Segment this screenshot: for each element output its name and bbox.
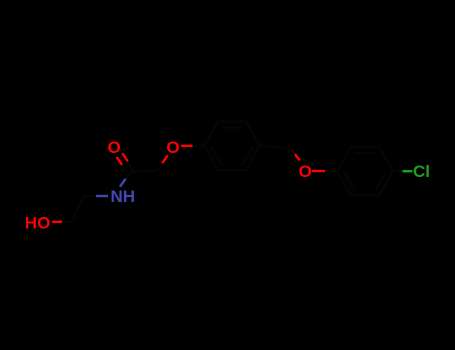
bond C2-N dark half <box>84 195 96 197</box>
bond O(H)-C1 dark half <box>62 221 72 223</box>
bond ring2-Cl green half <box>403 170 413 172</box>
bond C3=O main dark half <box>128 161 132 171</box>
svg-text:O: O <box>299 162 312 181</box>
bond ring2-Cl dark half <box>393 170 403 172</box>
bond N-C3 blue half <box>120 179 126 187</box>
bond C2-N blue half <box>96 195 108 197</box>
bond ring1-CH2 <box>260 146 290 148</box>
bond C4-O1 dark half <box>157 163 162 171</box>
ring2 inner aromatic line top <box>355 152 376 154</box>
bond O2-ring2 dark half <box>325 170 337 172</box>
ring1 inner aromatic line top <box>222 126 243 128</box>
svg-text:O: O <box>166 138 179 157</box>
svg-text:HO: HO <box>25 214 51 233</box>
svg-text:O: O <box>108 138 121 157</box>
svg-text:NH: NH <box>111 187 136 206</box>
bond O2-ring2 red half <box>312 170 325 172</box>
bond O1-ring1 dark half <box>193 145 205 147</box>
bond CH2-O2 red half <box>295 154 300 160</box>
bond C3=O second red half <box>117 157 122 165</box>
bond C4-O1 red half <box>162 155 167 163</box>
bond O1-ring1 red half <box>181 145 193 147</box>
svg-text:Cl: Cl <box>413 162 430 181</box>
bond C3=O main red half <box>122 153 127 161</box>
ring2 inner aromatic line lower-right <box>375 172 386 190</box>
bond N-C3 dark half <box>126 172 133 179</box>
bond C1-C2 <box>72 196 84 222</box>
ring2 benzene hexagon <box>337 147 393 195</box>
ring2 inner aromatic line lower-left <box>345 172 356 190</box>
bond HO-C1 red half <box>52 221 62 223</box>
ring1 benzene hexagon <box>204 122 260 170</box>
ring1 inner aromatic line lower-left <box>212 147 223 165</box>
bond C3=O second dark half <box>122 165 126 171</box>
ring1 inner aromatic line lower-right <box>242 147 253 165</box>
bond CH2-O2 dark half <box>290 148 295 154</box>
bond C3-C4 <box>132 170 157 173</box>
